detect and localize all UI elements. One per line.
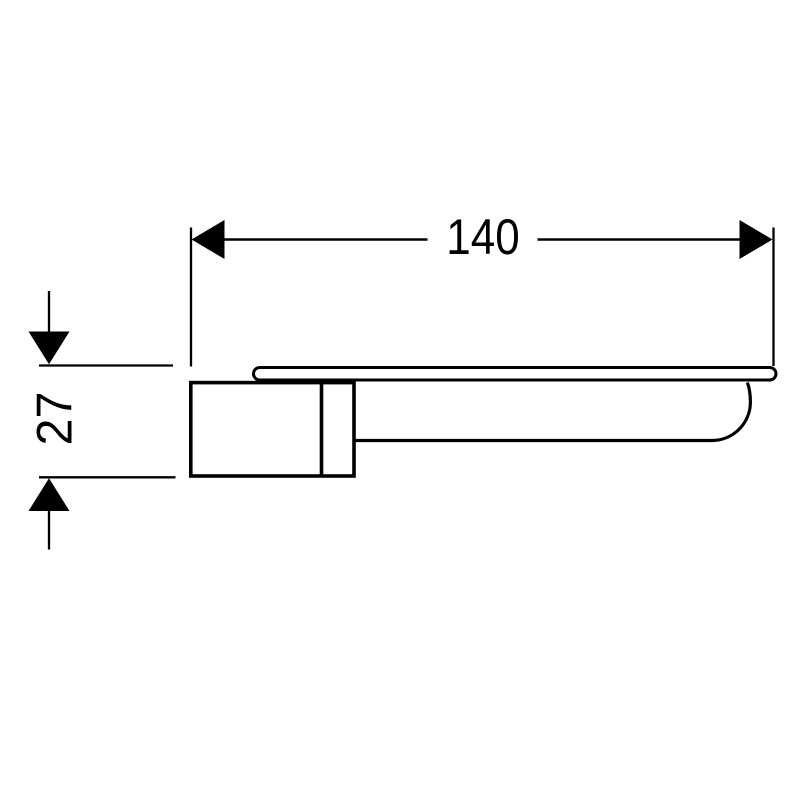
svg-text:140: 140	[446, 208, 519, 264]
svg-text:27: 27	[27, 392, 83, 446]
